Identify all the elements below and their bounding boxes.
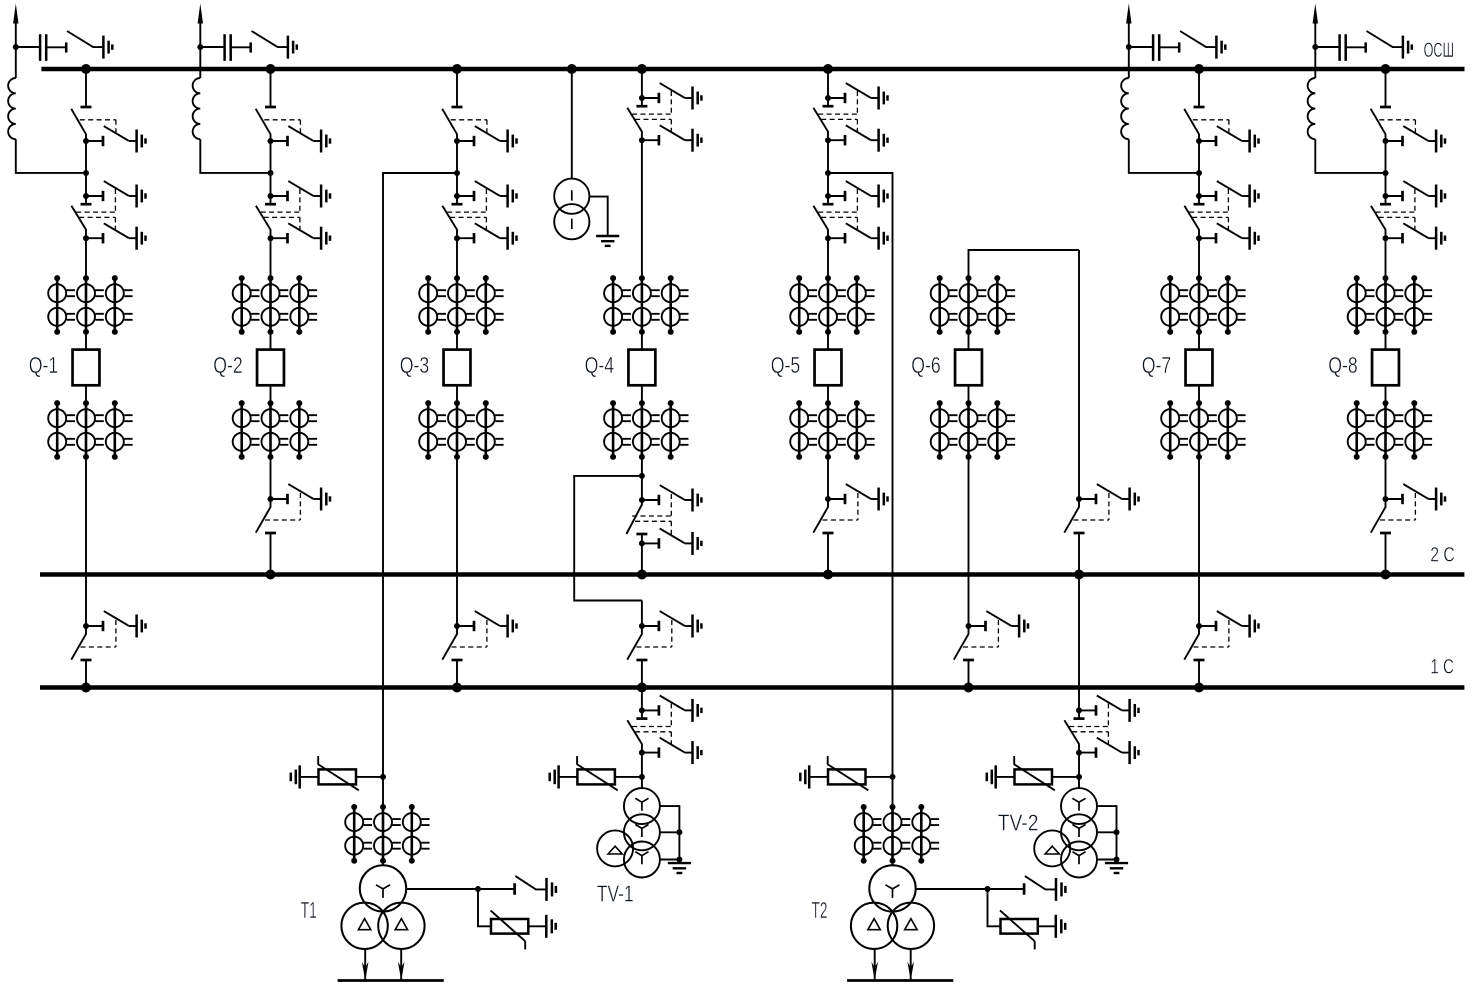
wire Q-5 breaker to CT (827, 385, 829, 403)
svg-text:Q-4: Q-4 (585, 352, 615, 378)
bus ОСШ (bypass busbar) (41, 67, 1464, 72)
wire TSN from ОСШ bus down (571, 69, 573, 179)
svg-text:Q-6: Q-6 (911, 352, 941, 378)
node TV-2 arrester junction (1076, 774, 1082, 780)
line entry with coupling capacitor, earthing switch and line trap coil (Q-7 feeder) (1121, 4, 1225, 173)
wire jumper from Q-6 to bus-coupler riser (969, 250, 1080, 278)
wire Q-4 disconnector to bus 2С (641, 543, 643, 574)
current transformer group TA1 Q-8 (1348, 275, 1432, 335)
wire Q-2 from ОСШ bus down to disconnector (270, 69, 272, 107)
node Q-8 jumper tap (1383, 170, 1389, 176)
wire Q-8 breaker to CT (1385, 385, 1387, 403)
disconnector QS1 Q-4 with two earthing switches (627, 83, 701, 152)
disconnector TV-2 with two earthing switches (1064, 696, 1138, 765)
current transformer group TA2 Q-8 (1348, 400, 1432, 460)
current transformer group TA2 Q-2 (233, 400, 317, 460)
wire coupler riser down to bus 2С disconnector (1078, 250, 1080, 499)
circuit breaker Q-4 (628, 350, 655, 386)
svg-text:ОСШ: ОСШ (1424, 38, 1454, 62)
node Q-5 jumper tap (825, 170, 831, 176)
wire TV-2 from bus 2С down across bus 1С (1078, 575, 1080, 711)
wire Q-2 breaker to CT (270, 385, 272, 403)
svg-text:T1: T1 (301, 897, 317, 923)
disconnector QS1 Q-2 with earthing switch (256, 107, 330, 153)
disconnector QS1 Q-1 with earthing switch (71, 107, 145, 153)
wire T2 junction to current transformers (892, 777, 894, 807)
svg-text:T2: T2 (812, 897, 828, 923)
wire Q-8 disconnector to lower disconnector (1385, 141, 1387, 196)
wire jumper from Q-5 node to transformer T2 feeder (828, 173, 893, 777)
current transformer group TA2 Q-3 (419, 400, 503, 460)
wire Q-2 CT down to bus disconnector (270, 457, 272, 499)
voltage transformer TV-2 (3 wye windings, delta winding, grounded) (1034, 777, 1128, 878)
wire Q-7 breaker to CT (1198, 385, 1200, 403)
wire T1 CT to transformer (382, 861, 384, 865)
svg-text:TV-1: TV-1 (597, 881, 634, 907)
wire Q-6 CT down across bus 2С to bus disconnector (968, 457, 970, 626)
power transformer T1 (wye / two delta windings) with load arrows (338, 865, 444, 980)
wire Q-8 from ОСШ bus down to disconnector (1385, 69, 1387, 107)
wire Q-4 to current transformers (641, 140, 643, 278)
svg-text:Q-2: Q-2 (213, 352, 243, 378)
node Q-2 / bus 2С junction (266, 570, 276, 580)
disconnector Q-4 to bus 1С with earthing switch (627, 611, 701, 660)
disconnector Q-4 to bus 2С with two earthing switches (626, 485, 701, 555)
disconnector QS2 Q-5 with two earthing switches (813, 181, 887, 250)
bus 2С (busbar section 2) (40, 572, 1464, 577)
wire coupler disconnector to bus 2С (1078, 533, 1080, 575)
node Q-7 / bus 1С junction (1194, 683, 1204, 693)
wire Q-5 CT to breaker (827, 332, 829, 350)
surge arrester FV TV-2 with ground (987, 756, 1079, 790)
disconnector TV-1 with two earthing switches (627, 696, 701, 765)
wire Q-1 CT down across bus 2С to bus disconnector (85, 457, 87, 626)
node Q-3 jumper tap (454, 170, 460, 176)
disconnector QS2 Q-3 with two earthing switches (442, 181, 516, 250)
node Q-1 / ОСШ bus junction (81, 64, 91, 74)
line entry with coupling capacitor, earthing switch and line trap coil (Q-2 feeder) (193, 4, 297, 173)
wire TV-1 disconnector to junction (641, 753, 643, 777)
svg-text:Q-7: Q-7 (1142, 352, 1172, 378)
node Q-6 / bus 1С junction (964, 683, 974, 693)
node T1 arrester junction (380, 774, 386, 780)
disconnector QS2 Q-1 with two earthing switches (71, 181, 145, 250)
current transformer group TA T1 (345, 804, 429, 864)
node Q-2 / ОСШ bus junction (266, 64, 276, 74)
wire Q-4 CT down to jumper tap (641, 457, 643, 500)
disconnector Q-6 to bus 1С with earthing switch (954, 611, 1028, 660)
wire Q-3 disconnector to bus 1С (456, 660, 458, 688)
svg-text:1 С: 1 С (1430, 654, 1454, 678)
wire Q-4 from ОСШ bus down to disconnector (641, 69, 643, 98)
circuit breaker Q-2 (257, 350, 284, 386)
node Q-4 / bus 1С junction (637, 683, 647, 693)
wire Q-3 CT down across bus 2С to bus disconnector (456, 457, 458, 626)
wire Q-2 disconnector to lower disconnector (270, 141, 272, 196)
wire Q-1 to current transformers (85, 238, 87, 278)
disconnector Q-8 to bus 2С with earthing switch (1371, 484, 1445, 533)
wire T2 CT to transformer (892, 861, 894, 865)
node Q-7 / ОСШ bus junction (1194, 64, 1204, 74)
disconnector Q-3 to bus 1С with earthing switch (442, 611, 516, 660)
wire Q-4 breaker to CT (641, 385, 643, 403)
svg-text:Q-3: Q-3 (400, 352, 430, 378)
wire Q-5 to current transformers (827, 238, 829, 278)
line entry with coupling capacitor, earthing switch and line trap coil (Q-1 feeder) (8, 4, 112, 173)
disconnector QS2 Q-8 with two earthing switches (1371, 181, 1445, 250)
node Q-4 / ОСШ bus junction (637, 64, 647, 74)
svg-text:Q-5: Q-5 (771, 352, 801, 378)
wire Q-5 from ОСШ bus down to disconnector (827, 69, 829, 98)
node TV-1 arrester junction (639, 774, 645, 780)
node Q-8 / ОСШ bus junction (1381, 64, 1391, 74)
circuit breaker Q-8 (1372, 350, 1399, 386)
node Q-7 jumper tap (1196, 170, 1202, 176)
node Q-1 / bus 1С junction (81, 683, 91, 693)
disconnector coupler to bus 2С with earthing switch (1064, 484, 1138, 533)
svg-text:2 С: 2 С (1430, 542, 1455, 566)
node Q-2 jumper tap (268, 170, 274, 176)
disconnector Q-2 to bus 2С with earthing switch (256, 484, 330, 533)
wire Q-5 disconnector to bus 2С (827, 533, 829, 575)
wire Q-1 CT to breaker (85, 332, 87, 350)
node TSN / ОСШ bus junction (567, 64, 577, 74)
circuit breaker Q-5 (815, 350, 842, 386)
current transformer group TA2 Q-5 (790, 400, 874, 460)
node Q-5 / ОСШ bus junction (823, 64, 833, 74)
wire Q-3 CT to breaker (456, 332, 458, 350)
disconnector QS1 Q-8 with earthing switch (1371, 107, 1445, 153)
current transformer group TA1 Q-6 (931, 275, 1015, 335)
wire T1 junction to current transformers (382, 777, 384, 807)
wire Q-2 to current transformers (270, 238, 272, 278)
wire Q-5 CT down to bus disconnector (827, 457, 829, 499)
current transformer group TA T2 (855, 804, 939, 864)
wire Q-3 from ОСШ bus down to disconnector (456, 69, 458, 107)
node Q-1 jumper tap (83, 170, 89, 176)
node Q-5 / bus 2С junction (823, 570, 833, 580)
wire Q-4 jumper down to bus 1С disconnector (641, 601, 643, 627)
current transformer group TA1 Q-7 (1161, 275, 1245, 335)
wire Q-1 disconnector to lower disconnector (85, 141, 87, 196)
wire TSN secondary to ground (589, 197, 607, 236)
wire Q-2 CT to breaker (270, 332, 272, 350)
node Q-3 / ОСШ bus junction (452, 64, 462, 74)
node Q-4 bypass jumper tap (639, 473, 645, 479)
wire TV-2 disconnector to junction (1078, 753, 1080, 777)
wire Q-4 disconnector to bus 1С (641, 660, 643, 688)
circuit breaker Q-6 (955, 350, 982, 386)
line entry with coupling capacitor, earthing switch and line trap coil (Q-8 feeder) (1308, 4, 1412, 173)
surge arrester FV T1 with ground (291, 756, 383, 790)
node Q-8 / bus 2С junction (1381, 570, 1391, 580)
disconnector QS2 Q-7 with two earthing switches (1184, 181, 1258, 250)
disconnector QS1 Q-7 with earthing switch (1184, 107, 1258, 153)
current transformer group TA2 Q-1 (48, 400, 132, 460)
current transformer group TA1 Q-4 (604, 275, 688, 335)
node coupler / bus 2С junction (1074, 570, 1084, 580)
wire Q-7 CT to breaker (1198, 332, 1200, 350)
wire jumper from Q-3 node to transformer T1 feeder (383, 173, 457, 777)
wire Q-6 CT to breaker (968, 332, 970, 350)
disconnector Q-7 to bus 1С with earthing switch (1184, 611, 1258, 660)
wire Q-3 to current transformers (456, 238, 458, 278)
surge arrester FV TV-1 with ground (550, 756, 642, 790)
node T2 arrester junction (890, 774, 896, 780)
bus 1С (busbar section 1) (40, 685, 1464, 690)
wire Q-1 breaker to CT (85, 385, 87, 403)
circuit breaker Q-1 (73, 350, 100, 386)
surge arrester FV T2 with ground (800, 756, 892, 790)
node Q-4 / bus 2С junction (637, 570, 647, 580)
wire Q-3 breaker to CT (456, 385, 458, 403)
station service transformer TSN (two windings) (554, 179, 589, 240)
power transformer T2 (wye / two delta windings) with load arrows (847, 865, 953, 980)
current transformer group TA1 Q-2 (233, 275, 317, 335)
disconnector Q-5 to bus 2С with earthing switch (813, 484, 887, 533)
neutral earthing switch and surge arrester of T2 (916, 876, 1066, 949)
wire Q-8 disconnector to bus 2С (1385, 533, 1387, 575)
svg-text:Q-8: Q-8 (1328, 352, 1358, 378)
neutral earthing switch and surge arrester of T1 (406, 876, 556, 949)
circuit breaker Q-7 (1186, 350, 1213, 386)
wire TV-1 from bus 1С down (641, 688, 643, 711)
disconnector QS2 Q-2 with two earthing switches (256, 181, 330, 250)
disconnector Q-1 to bus 1С with earthing switch (71, 611, 145, 660)
node Q-3 / bus 1С junction (452, 683, 462, 693)
wire Q-8 CT to breaker (1385, 332, 1387, 350)
wire Q-4 bypass jumper around bus 2С (574, 476, 642, 601)
circuit breaker Q-3 (444, 350, 471, 386)
wire Q-5 between disconnectors (827, 140, 829, 196)
current transformer group TA2 Q-6 (931, 400, 1015, 460)
voltage transformer TV-1 (3 wye windings, delta winding, grounded) (597, 777, 691, 878)
wire Q-2 disconnector to bus 2С (270, 533, 272, 575)
wire Q-6 breaker to CT (968, 385, 970, 403)
wire Q-7 to current transformers (1198, 238, 1200, 278)
wire Q-3 disconnector to lower disconnector (456, 141, 458, 196)
current transformer group TA1 Q-3 (419, 275, 503, 335)
wire Q-6 disconnector to bus 1С (968, 660, 970, 688)
current transformer group TA1 Q-5 (790, 275, 874, 335)
disconnector QS1 Q-5 with two earthing switches (813, 83, 887, 152)
wire Q-8 CT down to bus disconnector (1385, 457, 1387, 499)
wire Q-7 from ОСШ bus down to disconnector (1198, 69, 1200, 107)
wire Q-4 CT to breaker (641, 332, 643, 350)
current transformer group TA2 Q-7 (1161, 400, 1245, 460)
current transformer group TA1 Q-1 (48, 275, 132, 335)
current transformer group TA2 Q-4 (604, 400, 688, 460)
wire Q-7 disconnector to lower disconnector (1198, 141, 1200, 196)
wire Q-1 disconnector to bus 1С (85, 660, 87, 688)
ground TSN (596, 236, 619, 246)
svg-text:Q-1: Q-1 (29, 352, 59, 378)
wire Q-8 to current transformers (1385, 238, 1387, 278)
wire Q-7 disconnector to bus 1С (1198, 660, 1200, 688)
wire Q-1 from ОСШ bus down to disconnector (85, 69, 87, 107)
svg-text:TV-2: TV-2 (998, 810, 1039, 836)
wire Q-7 CT down across bus 2С to bus disconnector (1198, 457, 1200, 626)
disconnector QS1 Q-3 with earthing switch (442, 107, 516, 153)
